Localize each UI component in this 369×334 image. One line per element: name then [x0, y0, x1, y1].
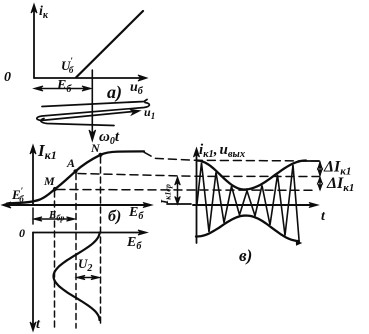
svg-text:uб: uб [130, 80, 144, 97]
b: Ik1cp dimension vertical [177, 178, 179, 203]
v: right dim vertical upper [319, 162, 321, 176]
a: y-axis [33, 8, 35, 78]
u2: U2 dimension line [78, 277, 98, 279]
v: t axis [193, 204, 314, 206]
svg-text:ΔIк1: ΔIк1 [326, 175, 354, 194]
b: E_br left arrow [34, 217, 43, 221]
svg-text:iк: iк [39, 4, 49, 21]
a: carrier coil stroke 2 [37, 103, 150, 121]
a: diagonal line [76, 11, 143, 78]
v: top envelope [197, 161, 306, 190]
v: carrier zigzag [197, 163, 299, 240]
svg-text:Iк1: Iк1 [37, 141, 57, 162]
svg-text:t: t [321, 209, 326, 224]
svg-text:u1: u1 [144, 105, 155, 121]
b: dashed level line N max [144, 152, 319, 161]
a: u1 arrowhead [130, 110, 140, 116]
v: bottom envelope arrowhead [293, 240, 302, 246]
a: E_b dim right arrow [82, 86, 91, 91]
b: dashed vertical through A [75, 174, 77, 329]
a: x-axis [34, 77, 143, 79]
svg-text:iк1,uвых: iк1,uвых [199, 142, 245, 160]
b: point M [53, 187, 57, 191]
svg-text:Eб: Eб [56, 78, 72, 95]
v: right level tick top [303, 160, 319, 162]
u2: U2 dim left arrow [77, 275, 86, 279]
u2: modulating sine [54, 233, 100, 321]
svg-text:U2: U2 [78, 256, 92, 274]
svg-text:0: 0 [19, 226, 25, 240]
v: right dim vertical lower [319, 178, 321, 190]
a: E_b dim left arrow [34, 86, 43, 91]
v: bottom envelope [196, 216, 299, 242]
svg-text:б): б) [108, 208, 121, 225]
svg-text:M: M [43, 174, 55, 188]
a: w0t arrow line [91, 99, 93, 136]
u2: U2 dim right arrow [91, 275, 100, 279]
a: tick at E_b point [91, 70, 93, 99]
b: E_br dim tick left [32, 208, 34, 224]
u2: t axis down [32, 233, 34, 329]
b: point N [98, 153, 102, 157]
svg-text:Eбр: Eбр [48, 209, 64, 223]
u2: E_b axis arrow [138, 230, 147, 235]
b: y-axis [32, 149, 34, 205]
b: Ik1cp arrow down [175, 197, 181, 205]
b: dashed vertical through N [100, 157, 102, 325]
b: E_br right arrow [67, 217, 76, 221]
b: dashed level line M min [57, 189, 315, 192]
svg-text:Eб: Eб [128, 205, 144, 222]
b: E_br dimension line [35, 218, 73, 220]
svg-text:0: 0 [4, 70, 11, 85]
svg-text:в): в) [239, 246, 252, 265]
v: y-axis [196, 152, 198, 243]
svg-text:ω0t: ω0t [99, 129, 120, 147]
a: x-axis arrow [138, 75, 147, 81]
svg-text:Iк1ср: Iк1ср [159, 184, 173, 205]
v: right dim arrows lower [318, 177, 323, 191]
b: x-axis left arrow [2, 202, 11, 208]
b: x-axis [4, 204, 149, 206]
b: Ik1cp arrow up [175, 177, 181, 185]
v: right dim arrows upper [318, 162, 323, 177]
b: dashed level line A avg [78, 174, 319, 177]
v: t axis arrow [309, 203, 318, 208]
u2: t axis arrow down [30, 322, 36, 331]
svg-text:A: A [66, 156, 75, 170]
b: y-axis arrow [30, 145, 36, 154]
b: x-axis right arrow [143, 203, 152, 208]
b: point A [73, 169, 77, 173]
svg-text:t: t [36, 317, 41, 332]
svg-text:N: N [90, 141, 101, 155]
a: w0t arrowhead [89, 130, 96, 141]
a: carrier coil stroke 1 [42, 100, 147, 107]
b: transfer curve [7, 151, 144, 203]
a: carrier coil bottom stroke [41, 119, 114, 126]
a: y-axis arrow [31, 4, 37, 13]
a: E_b dimension line [36, 88, 90, 90]
b: dashed vertical through M [54, 191, 56, 328]
u2: E_b axis [33, 232, 143, 234]
svg-text:U′б: U′б [61, 56, 74, 75]
svg-text:Eб: Eб [126, 235, 142, 252]
v: y-axis arrow [194, 148, 200, 157]
svg-text:а): а) [107, 82, 122, 103]
svg-text:E′б: E′б [11, 186, 24, 204]
b: axis level segment under dimension [167, 203, 191, 205]
